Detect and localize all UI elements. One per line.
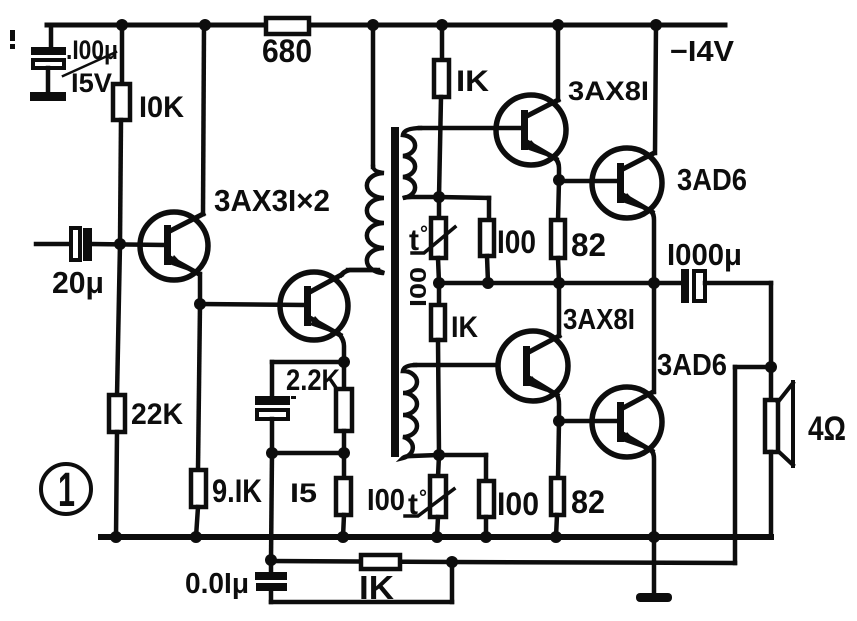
capacitor 20u (input)	[36, 228, 164, 300]
node feedback left junction	[265, 554, 277, 566]
svg-text:4Ω: 4Ω	[808, 410, 846, 448]
wire output line	[439, 281, 682, 286]
svg-text:1: 1	[58, 464, 75, 517]
svg-text:20μ: 20μ	[52, 265, 104, 300]
wire node A to Q2 base	[200, 304, 304, 305]
wire speaker bottom to ground rail	[769, 452, 774, 537]
resistor 82 (bottom)	[551, 421, 605, 537]
transistor Q4 3AX81 (bottom)	[498, 331, 568, 401]
svg-text:I00: I00	[367, 482, 405, 517]
resistor 1K (top)	[434, 25, 489, 197]
svg-text:°: °	[419, 487, 427, 509]
svg-text:680: 680	[262, 33, 312, 69]
svg-text:3AX8I: 3AX8I	[568, 76, 649, 106]
svg-text:2.2K: 2.2K	[286, 364, 340, 397]
svg-text:IK: IK	[456, 65, 489, 98]
resistor 22K	[109, 244, 183, 537]
wire Q6 collector to rail	[655, 25, 656, 153]
node input/base junction	[114, 238, 126, 250]
speaker 4ohm	[765, 382, 846, 466]
wire Q4 collector to output	[557, 283, 562, 336]
decorative exclamation mark top-left	[10, 30, 15, 49]
thermistor t (top)	[409, 197, 455, 283]
wire Q3 collector to rail	[556, 25, 561, 100]
resistor 1K (middle)	[431, 283, 478, 455]
svg-text:3AD6: 3AD6	[677, 162, 747, 197]
node output/speaker junction	[769, 283, 774, 400]
node top rail junctions	[116, 19, 662, 31]
node Q2 emitter junction	[338, 356, 350, 368]
capacitor 0.01u (feedback)	[185, 560, 452, 602]
svg-text:3AX8I: 3AX8I	[563, 304, 635, 336]
transistor Q3 3AX81 (top)	[496, 95, 566, 165]
wire node to Q5 base	[559, 419, 617, 424]
svg-text:9.IK: 9.IK	[212, 473, 262, 509]
svg-text:I5V: I5V	[71, 68, 112, 98]
wire bottom ground rail	[101, 534, 771, 540]
wire Q1 emitter down to node A	[198, 274, 203, 304]
wire Q5 collector to output	[652, 283, 657, 392]
resistor 2.2K	[286, 362, 352, 453]
transformer primary winding	[348, 25, 384, 273]
wire Q2 collector to transformer primary	[341, 270, 378, 275]
svg-text:82: 82	[571, 484, 605, 520]
svg-text:3AX3I×2: 3AX3I×2	[214, 183, 330, 218]
node A (Q1 emitter / Q2 base)	[194, 298, 206, 310]
resistor 9.1K	[191, 304, 262, 537]
svg-text:I00: I00	[405, 267, 431, 307]
wire Q6 emitter to output line	[652, 212, 654, 283]
wire Q3 emitter to node	[556, 159, 559, 180]
resistor 82 (top)	[551, 180, 606, 283]
node 2.2K/15 junction	[338, 447, 350, 459]
resistor 100 (top)	[439, 197, 536, 283]
wire Q2 emitter down	[340, 335, 344, 362]
wire feedback node drop (crosses ground rail)	[271, 453, 272, 560]
transistor Q6 3AD6 (top)	[592, 148, 662, 218]
capacitor 1000u (output)	[667, 237, 771, 303]
ground symbol	[636, 537, 672, 602]
wire top supply rail	[47, 23, 725, 28]
resistor 15	[290, 453, 351, 537]
wire Q5 emitter to ground rail	[652, 451, 654, 537]
resistor 10K	[113, 25, 184, 244]
resistor 100 (bottom)	[439, 455, 539, 537]
wire Q1 collector to top rail	[203, 25, 204, 214]
svg-text:I000μ: I000μ	[667, 237, 742, 272]
node feedback right junction	[446, 556, 458, 568]
wire node to Q6 base	[559, 179, 617, 184]
resistor 1K (feedback)	[271, 555, 452, 606]
svg-text:22K: 22K	[131, 398, 183, 431]
svg-text:.I00μ: .I00μ	[66, 35, 118, 65]
node cap/15 junction	[266, 447, 278, 459]
svg-text:0.0Iμ: 0.0Iμ	[185, 568, 249, 600]
resistor 680 (in series in top rail)	[262, 18, 312, 69]
node secondary tap (top)	[433, 191, 445, 203]
wire Q4 emitter to node	[557, 395, 559, 421]
svg-text:°: °	[420, 223, 428, 245]
capacitor 100u 15V (supply filter, top-left)	[30, 25, 118, 101]
transistor Q5 3AD6 (bottom)	[592, 387, 662, 457]
svg-text:I00: I00	[497, 486, 539, 522]
transistor Q1 3AX31	[140, 212, 208, 280]
node secondary tap (bottom)	[433, 449, 445, 461]
node bottom rail junctions	[110, 531, 660, 543]
svg-text:−I4V: −I4V	[670, 36, 735, 68]
svg-text:3AD6: 3AD6	[657, 347, 727, 382]
svg-text:IK: IK	[451, 311, 478, 344]
svg-text:I0K: I0K	[139, 91, 184, 124]
svg-text:t: t	[408, 488, 418, 521]
svg-text:82: 82	[571, 227, 606, 263]
svg-text:I00: I00	[497, 224, 536, 260]
wire feedback from output node	[452, 367, 771, 563]
svg-text:I5: I5	[290, 478, 317, 508]
capacitor (bypass, electrolytic) beside 2.2K	[255, 362, 344, 453]
thermistor t (bottom)	[367, 455, 454, 537]
node Q3 emitter / Q6 base	[553, 174, 565, 186]
transformer secondary (top half)	[403, 128, 496, 198]
figure number circled 1	[41, 464, 91, 517]
transformer secondary (bottom half)	[403, 365, 498, 458]
transformer T1 core	[391, 127, 399, 457]
wire cap node to 2.2K bottom	[272, 451, 344, 456]
svg-text:t: t	[409, 224, 419, 257]
node Q4 emitter / Q5 base	[553, 415, 565, 427]
transistor Q2 3AX31	[280, 272, 348, 340]
